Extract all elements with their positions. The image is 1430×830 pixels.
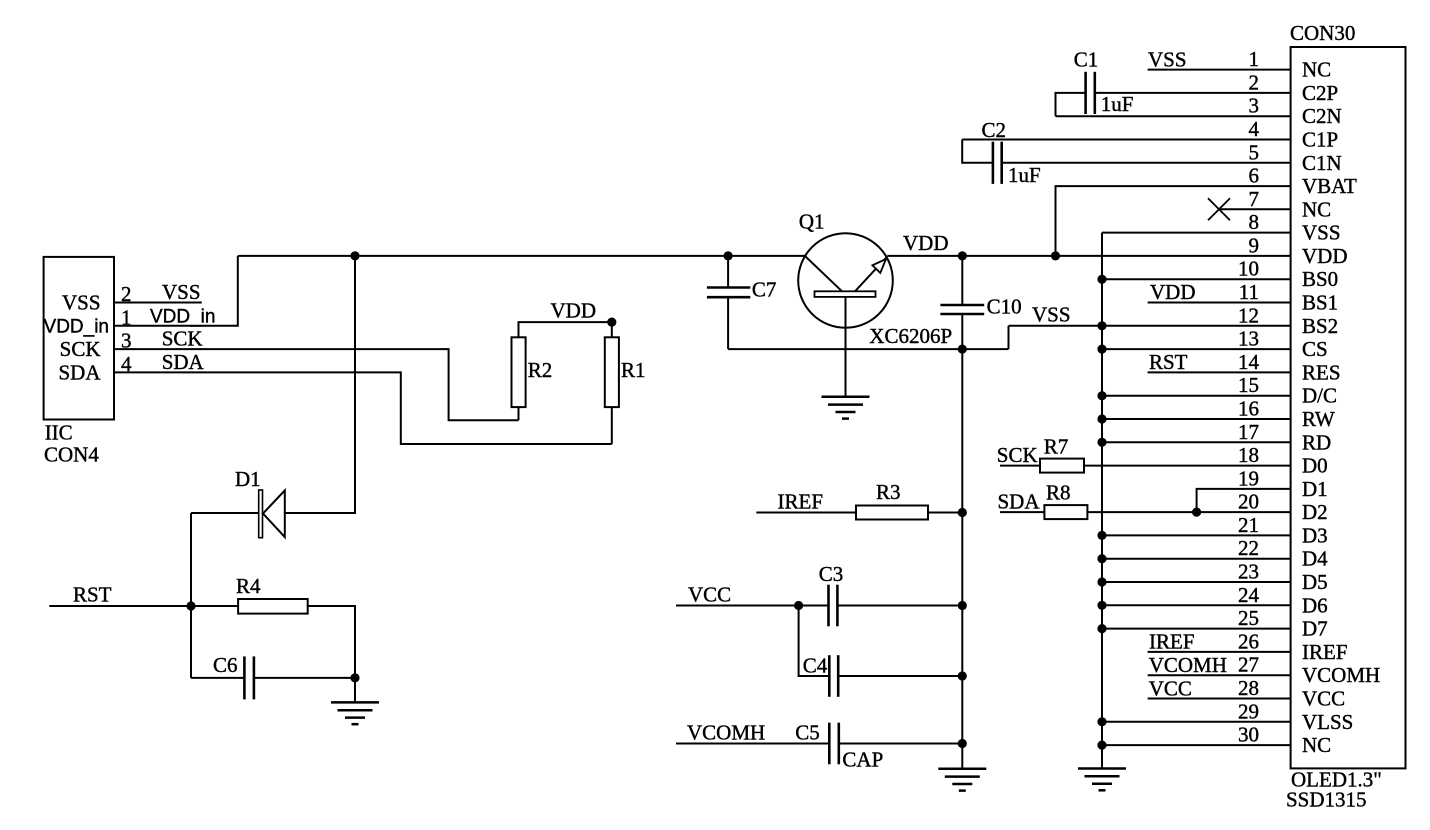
svg-text:4: 4 [1249, 117, 1260, 141]
svg-text:VSS: VSS [162, 280, 201, 304]
junction dot rail at C7 [724, 251, 733, 260]
junction dot VSS row at C10 [958, 345, 967, 354]
svg-text:CAP: CAP [842, 748, 883, 772]
capacitor C10 top plate [940, 304, 984, 307]
vertical VSS bus beside CON30 [1101, 233, 1103, 769]
svg-text:11: 11 [1239, 280, 1259, 304]
wire pin 10 [1102, 278, 1291, 280]
svg-text:BS1: BS1 [1302, 291, 1338, 315]
junction dot R3 at VSS line [958, 508, 967, 517]
ground symbol below Q1 [822, 397, 870, 419]
transistor Q1 right diagonal with arrow [855, 257, 887, 292]
wire R3 to VSS line [928, 512, 962, 514]
svg-text:C2P: C2P [1302, 81, 1338, 105]
svg-text:IREF: IREF [1302, 640, 1348, 664]
svg-text:1: 1 [1249, 47, 1260, 71]
svg-text:3: 3 [1249, 94, 1260, 118]
svg-text:VSS: VSS [1148, 48, 1187, 72]
svg-text:RES: RES [1302, 360, 1341, 384]
svg-text:C6: C6 [213, 653, 238, 677]
wire pin 13 [1102, 348, 1291, 350]
capacitor C4 right plate [837, 655, 840, 697]
wire pin 26 IREF net [1148, 651, 1291, 653]
svg-text:22: 22 [1238, 536, 1259, 560]
junction dot RST node [186, 601, 195, 610]
junction dot pin 29 [1097, 717, 1106, 726]
svg-text:IREF: IREF [1149, 630, 1195, 654]
svg-text:D4: D4 [1302, 547, 1328, 571]
transistor Q1 arrowhead [872, 259, 886, 273]
svg-text:VCOMH: VCOMH [687, 721, 765, 745]
svg-text:D1: D1 [1302, 477, 1328, 501]
svg-text:D/C: D/C [1302, 384, 1337, 408]
svg-text:RW: RW [1302, 407, 1335, 431]
svg-text:CON4: CON4 [44, 443, 99, 467]
capacitor C5 left plate [828, 723, 831, 765]
svg-text:16: 16 [1238, 397, 1259, 421]
svg-text:D3: D3 [1302, 523, 1328, 547]
svg-text:VCC: VCC [688, 583, 731, 607]
resistor R1 body [605, 337, 619, 407]
svg-text:21: 21 [1238, 513, 1259, 537]
svg-text:C1N: C1N [1302, 151, 1342, 175]
svg-text:19: 19 [1238, 466, 1259, 490]
wire RST to junction [49, 605, 238, 607]
wire VSS corner up to pin 12 row [1008, 326, 1010, 349]
svg-text:VLSS: VLSS [1302, 710, 1353, 734]
resistor R4 body [238, 599, 308, 614]
capacitor C7 bottom plate [707, 296, 750, 299]
transistor Q1 left diagonal [806, 257, 843, 292]
svg-text:VCC: VCC [1302, 687, 1345, 711]
svg-text:13: 13 [1238, 327, 1259, 351]
wire R8 to CON30 pin 20 [1087, 511, 1290, 513]
svg-text:D6: D6 [1302, 593, 1328, 617]
svg-text:C1P: C1P [1302, 128, 1338, 152]
junction dot pin 13 [1097, 345, 1106, 354]
svg-text:VSS: VSS [62, 291, 101, 315]
wire C6 right lead to ground node [254, 677, 355, 679]
svg-text:29: 29 [1238, 699, 1259, 723]
junction dot rail at D1 riser [350, 251, 359, 260]
wire VCC to C3 [676, 605, 829, 607]
svg-text:VCC: VCC [1149, 677, 1192, 701]
svg-text:VCOMH: VCOMH [1149, 653, 1227, 677]
svg-text:XC6206P: XC6206P [869, 324, 952, 348]
svg-text:C2: C2 [982, 118, 1007, 142]
wire pin 15 [1102, 395, 1291, 397]
wire CON4 pin 1 VDD_in to rail riser [114, 256, 238, 326]
wire ground node down [354, 678, 356, 703]
wire SDA to R8 [1000, 511, 1044, 513]
svg-text:26: 26 [1238, 629, 1259, 653]
svg-text:10: 10 [1238, 257, 1259, 281]
svg-text:SCK: SCK [60, 337, 101, 361]
junction dot pin 23 [1097, 577, 1106, 586]
svg-text:D7: D7 [1302, 617, 1328, 641]
wire pin 4 to C2 bracket [962, 139, 1290, 141]
svg-text:BS0: BS0 [1302, 267, 1338, 291]
wire pin 22 [1102, 558, 1291, 560]
junction dot pin 25 [1097, 624, 1106, 633]
svg-text:24: 24 [1238, 583, 1260, 607]
resistor R7 body [1040, 459, 1084, 473]
wire pin 24 [1102, 604, 1291, 606]
svg-text:VDD: VDD [903, 231, 949, 255]
svg-text:C5: C5 [795, 721, 820, 745]
svg-text:28: 28 [1238, 676, 1259, 700]
junction dot pin 24 [1097, 601, 1106, 610]
junction dot VBAT on rail [1051, 251, 1060, 260]
svg-text:SSD1315: SSD1315 [1286, 788, 1367, 812]
wire pin 3 [1056, 115, 1291, 117]
svg-text:RST: RST [1149, 350, 1188, 374]
svg-text:RST: RST [73, 583, 112, 607]
wire pin 5 to C2 right plate [1002, 162, 1291, 164]
wire pin 21 [1102, 534, 1291, 536]
junction dot pin 17 [1097, 438, 1106, 447]
capacitor C2 right plate [1000, 142, 1003, 184]
svg-text:23: 23 [1238, 560, 1259, 584]
svg-text:VSS: VSS [1032, 303, 1071, 327]
wire pin 6 VBAT riser to VDD rail [1056, 186, 1291, 256]
svg-text:NC: NC [1302, 58, 1331, 82]
wire SCK to R7 [1000, 465, 1040, 467]
capacitor C3 left plate [827, 585, 830, 627]
wire CON4 pin 2 VSS stub [114, 302, 202, 304]
capacitor C4 left plate [828, 655, 831, 697]
wire pin 14 RST net [1148, 371, 1291, 373]
svg-text:SDA: SDA [162, 350, 205, 374]
svg-text:SDA: SDA [58, 360, 101, 384]
svg-text:IIC: IIC [45, 421, 73, 445]
svg-text:R2: R2 [528, 358, 553, 382]
capacitor C6 right plate [253, 656, 256, 699]
wire R2 bottom lead [518, 407, 520, 420]
svg-text:6: 6 [1249, 164, 1260, 188]
svg-text:VDD: VDD [551, 299, 597, 323]
svg-text:30: 30 [1238, 723, 1259, 747]
wire VCOMH to C5 [676, 743, 829, 745]
capacitor C7 top plate [707, 286, 750, 289]
capacitor C2 left plate [992, 142, 995, 184]
wire pin 17 [1102, 441, 1291, 443]
svg-text:Q1: Q1 [799, 210, 825, 234]
wire C7 top lead [727, 256, 729, 288]
wire R7 to CON30 pin 18 [1084, 465, 1291, 467]
junction dot VCC branch [794, 601, 803, 610]
wire pin 23 [1102, 581, 1291, 583]
svg-text:7: 7 [1249, 187, 1260, 211]
svg-text:CON30: CON30 [1290, 21, 1355, 45]
junction dot C6 ground node [350, 673, 359, 682]
junction dot pin 16 [1097, 414, 1106, 423]
transistor Q1 circle [798, 233, 893, 328]
wire VCC branch down to C4 [799, 606, 830, 677]
svg-text:25: 25 [1238, 606, 1259, 630]
wire pin 19 stub [1197, 489, 1291, 512]
wire D1 cathode to rail riser [285, 256, 355, 513]
svg-text:D1: D1 [235, 467, 261, 491]
junction dot pin 30 [1097, 741, 1106, 750]
wire VDD rail right of Q1 to CON30 pin 9 [887, 255, 1290, 257]
svg-text:NC: NC [1302, 197, 1331, 221]
svg-text:RD: RD [1302, 430, 1331, 454]
wire C7 bottom lead to VSS row [727, 297, 729, 349]
junction dot C3 at VSS line [958, 601, 967, 610]
svg-text:D2: D2 [1302, 500, 1328, 524]
wire RST node down to C6 row [190, 513, 192, 678]
svg-text:C1: C1 [1074, 48, 1099, 72]
junction dot pin 12 [1097, 321, 1106, 330]
capacitor C10 bottom plate [940, 313, 984, 316]
svg-text:R1: R1 [621, 358, 646, 382]
resistor R2 body [512, 337, 526, 407]
wire C10 top lead [961, 256, 963, 305]
svg-text:SCK: SCK [997, 443, 1038, 467]
svg-text:VDD_in: VDD_in [150, 307, 215, 328]
connector CON4 body [44, 257, 114, 420]
resistor R8 body [1044, 505, 1087, 519]
vertical VSS line from C10 down to ground [961, 349, 963, 769]
resistor R3 body [856, 506, 928, 520]
wire pin 16 [1102, 418, 1291, 420]
svg-text:2: 2 [1249, 70, 1260, 94]
connector CON30 body [1291, 47, 1406, 768]
CON30 pin numbers 1-30 [1238, 47, 1260, 747]
svg-text:R7: R7 [1044, 435, 1069, 459]
wire pin 12 BS2 VSS net [1009, 325, 1291, 327]
svg-text:1uF: 1uF [1008, 163, 1041, 187]
transistor Q1 base bar [815, 291, 876, 297]
svg-text:14: 14 [1238, 350, 1260, 374]
capacitor C5 right plate [837, 723, 840, 765]
wire C2 left bracket [962, 140, 993, 163]
ground symbol below C6 [331, 702, 379, 724]
svg-text:VSS: VSS [1302, 221, 1341, 245]
wire C6 left lead [191, 677, 244, 679]
wire VDD tie R2 top to R1 top [519, 322, 612, 337]
wire CON4 pin 4 SDA run [114, 372, 612, 444]
wire pin 7 [1219, 208, 1291, 210]
wire pin 27 VCOMH net [1148, 674, 1291, 676]
svg-text:5: 5 [1249, 140, 1260, 164]
svg-text:D5: D5 [1302, 570, 1328, 594]
svg-text:R4: R4 [236, 574, 261, 598]
diode D1 cathode bar [259, 490, 263, 538]
wire C4 to VSS line [838, 675, 962, 677]
svg-text:18: 18 [1238, 443, 1259, 467]
svg-text:17: 17 [1238, 420, 1259, 444]
svg-text:SDA: SDA [998, 490, 1041, 514]
junction dot pin 21 [1097, 531, 1106, 540]
svg-text:IREF: IREF [778, 490, 824, 514]
svg-text:VCOMH: VCOMH [1302, 663, 1380, 687]
wire C5 to VSS line [839, 743, 963, 745]
svg-text:C3: C3 [819, 562, 844, 586]
svg-text:CS: CS [1302, 337, 1328, 361]
junction dot pin 15 [1097, 391, 1106, 400]
svg-text:VBAT: VBAT [1302, 174, 1357, 198]
svg-text:C7: C7 [752, 278, 777, 302]
wire pin 1 VSS net [1148, 69, 1291, 71]
wire VDD_in rail left of Q1 (pin 9 net) [238, 255, 806, 257]
CON30 pin names inside box [1302, 58, 1380, 758]
ground symbol below decoupling caps [938, 769, 986, 791]
junction dot VDD at R1 top [607, 318, 616, 327]
svg-text:D0: D0 [1302, 454, 1328, 478]
capacitor C3 right plate [836, 585, 839, 627]
wire Q1 center pin down to ground [845, 297, 847, 397]
capacitor C1 left plate [1084, 72, 1087, 114]
wire pin 28 VCC net [1148, 698, 1291, 700]
junction dot C4 at VSS line [958, 671, 967, 680]
capacitor C1 right plate [1094, 72, 1097, 114]
wire pin 11 VDD net [1148, 302, 1291, 304]
svg-text:C4: C4 [803, 653, 828, 677]
svg-text:SCK: SCK [162, 327, 203, 351]
ground symbol below CON30 VSS bus [1078, 769, 1126, 791]
wire R4 right to C6 node riser [308, 606, 355, 678]
no-connect X mark pin 7 [1208, 198, 1230, 220]
junction dot pin 22 [1097, 554, 1106, 563]
svg-text:9: 9 [1249, 233, 1260, 257]
wire pin 8 VSS [1102, 232, 1291, 234]
wire CON4 pin 3 SCK run [114, 349, 519, 420]
wire C1 left bracket [1056, 93, 1086, 116]
wire C10 bottom lead [961, 314, 963, 349]
svg-text:15: 15 [1238, 373, 1259, 397]
wire pin 25 [1102, 628, 1291, 630]
svg-text:C10: C10 [987, 295, 1022, 319]
wire pin 2 to C1 right plate [1095, 92, 1291, 94]
svg-text:1uF: 1uF [1101, 92, 1134, 116]
wire IREF to R3 [756, 512, 856, 514]
svg-text:NC: NC [1302, 733, 1331, 757]
wire D1 anode side from left riser [191, 512, 259, 514]
wire pin 29 [1102, 721, 1291, 723]
capacitor C6 left plate [243, 656, 246, 699]
svg-text:12: 12 [1238, 303, 1259, 327]
wire pin 30 [1102, 744, 1291, 746]
wire C3 to VSS line [837, 605, 962, 607]
svg-text:VDD: VDD [1150, 280, 1196, 304]
wire R1 bottom lead [611, 407, 613, 444]
junction dot pin19 to pin20 [1192, 507, 1201, 516]
wire VSS row from C7 to corner [728, 348, 1008, 350]
svg-text:20: 20 [1238, 490, 1259, 514]
svg-text:R3: R3 [876, 480, 901, 504]
svg-text:C2N: C2N [1302, 104, 1342, 128]
junction dot pin 10 [1097, 275, 1106, 284]
svg-text:VDD_in: VDD_in [44, 317, 109, 338]
diode D1 triangle [263, 490, 285, 537]
svg-text:VDD: VDD [1302, 244, 1348, 268]
svg-text:BS2: BS2 [1302, 314, 1338, 338]
svg-text:R8: R8 [1046, 481, 1071, 505]
svg-text:8: 8 [1249, 210, 1260, 234]
svg-text:27: 27 [1238, 653, 1259, 677]
junction dot C5 at VSS line [958, 739, 967, 748]
junction dot rail at C10 [958, 251, 967, 260]
